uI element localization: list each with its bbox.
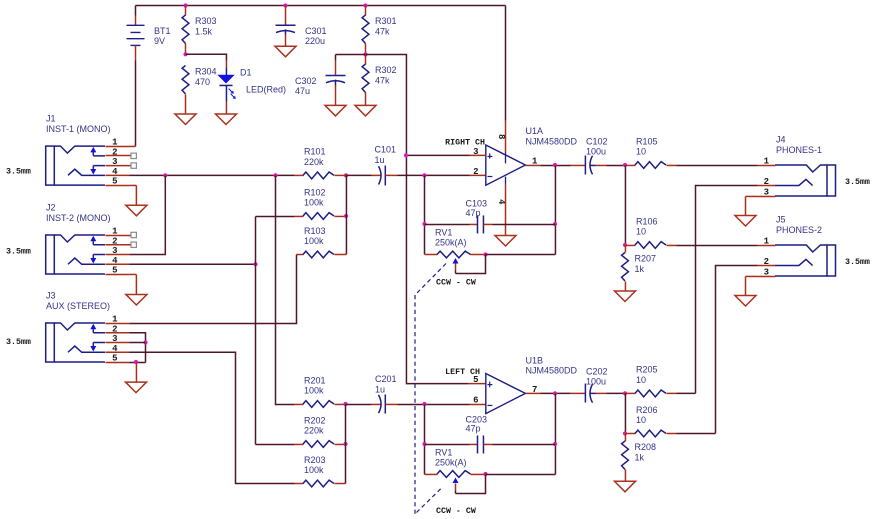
- svg-text:4: 4: [112, 256, 118, 266]
- diode D1 LED(Red): [219, 67, 287, 101]
- wire U1A pin 4 to ground: [505, 177, 507, 185]
- potentiometer RV1 250k(A) left channel: [425, 448, 471, 494]
- svg-text:3: 3: [112, 334, 117, 344]
- node pin2/feedback: [422, 173, 426, 177]
- wire C301 bottom lead: [285, 35, 287, 47]
- wire R101 right lead: [334, 174, 346, 176]
- capacitor C302 47u: [295, 76, 346, 97]
- svg-text:C202: C202: [586, 366, 608, 376]
- svg-text:6: 6: [473, 396, 478, 406]
- wire RV1b to feedback: [486, 473, 556, 475]
- svg-text:R102: R102: [304, 187, 326, 197]
- wire RV1 left-channel right lead: [471, 473, 486, 475]
- wire R202 right lead: [334, 443, 345, 445]
- node C203 left: [422, 442, 426, 446]
- ground below R208: [615, 481, 636, 492]
- wire R101-R103 right junction vertical: [345, 175, 347, 254]
- svg-text:CCW - CW: CCW - CW: [436, 278, 476, 287]
- connector J2 INST-2 (MONO) 3.5mm jack: [6, 203, 136, 276]
- wire R102 left lead: [256, 215, 295, 217]
- wire R207 top lead: [624, 245, 626, 252]
- potentiometer RV1 250k(A) right channel: [425, 228, 471, 274]
- wire R106 to J5 pin 1: [666, 244, 676, 246]
- svg-text:1u: 1u: [375, 384, 385, 394]
- svg-text:C301: C301: [305, 26, 327, 36]
- op-amp U1B NJM4580DD: [486, 355, 578, 413]
- wire R205/R206 junction vertical: [624, 393, 626, 433]
- svg-text:R302: R302: [375, 65, 397, 75]
- wire node to D1: [186, 54, 227, 60]
- svg-text:47k: 47k: [375, 75, 390, 85]
- node R202 junction: [343, 442, 347, 446]
- wire R302 bottom lead: [365, 93, 367, 106]
- resistor R208 1k: [622, 441, 656, 470]
- svg-text:PHONES-2: PHONES-2: [776, 225, 822, 235]
- node feedback/C103: [553, 222, 557, 226]
- node J2.4/branch A: [253, 262, 257, 266]
- wire J5 pin 2 to R206: [716, 266, 758, 434]
- wire C101 to U1A pin 2: [385, 174, 397, 176]
- svg-text:3: 3: [112, 246, 117, 256]
- node bus/R301: [363, 3, 367, 7]
- wire C202 to R205: [596, 392, 607, 394]
- svg-text:U1A: U1A: [526, 126, 544, 136]
- node feedback/C203: [553, 442, 557, 446]
- svg-text:3.5mm: 3.5mm: [6, 168, 31, 177]
- wire R106 left lead: [625, 244, 635, 246]
- ground below J3: [126, 382, 147, 393]
- svg-text:J4: J4: [776, 135, 786, 145]
- wire C201 to U1B pin 6: [385, 403, 397, 405]
- svg-text:2: 2: [112, 236, 117, 246]
- wire R105/R106 junction vertical: [624, 165, 626, 245]
- wire R303 bottom lead: [185, 44, 187, 55]
- resistor R103 100k: [303, 226, 334, 258]
- svg-text:100k: 100k: [304, 386, 324, 396]
- wire U1A pin 8 V+ lead: [505, 6, 507, 121]
- svg-text:U1B: U1B: [526, 355, 544, 365]
- ground below J2: [126, 295, 147, 306]
- wire R205 to J4 pin 2 net: [666, 392, 676, 394]
- svg-text:5: 5: [112, 354, 117, 364]
- ground U1A pin 4: [495, 236, 516, 247]
- wire J3 pin 4 to R203: [129, 352, 294, 483]
- node R303/R304/D1: [183, 52, 187, 56]
- resistor R102 100k: [303, 187, 334, 219]
- wire R207 bottom lead: [624, 281, 626, 291]
- ground below R207: [615, 291, 636, 302]
- wire U1A pin 2 feedback vertical: [424, 175, 426, 254]
- ground below J5: [735, 296, 756, 307]
- wire R303 top lead: [185, 6, 187, 16]
- svg-text:3: 3: [764, 188, 769, 198]
- svg-text:220k: 220k: [304, 426, 324, 436]
- svg-text:C101: C101: [375, 145, 397, 155]
- svg-text:470: 470: [195, 77, 210, 87]
- capacitor C301 220u: [276, 25, 327, 46]
- resistor R205 10: [635, 365, 666, 397]
- resistor R202 220k: [303, 415, 334, 447]
- wire branch A to R202: [256, 443, 295, 445]
- svg-text:R202: R202: [304, 415, 326, 425]
- node R206/R208: [623, 431, 627, 435]
- svg-text:5: 5: [112, 266, 117, 276]
- wire R208 bottom lead: [624, 470, 626, 482]
- svg-text:R304: R304: [195, 67, 217, 77]
- node R201/C201: [343, 402, 347, 406]
- svg-text:100k: 100k: [304, 198, 324, 208]
- svg-text:C201: C201: [375, 374, 397, 384]
- svg-text:J1: J1: [46, 114, 56, 124]
- svg-text:1u: 1u: [375, 155, 385, 165]
- node R102/R101 junction: [344, 214, 348, 218]
- svg-text:3.5mm: 3.5mm: [6, 248, 31, 257]
- wire J2 pin 4 to R102/R202 branch: [129, 263, 255, 265]
- node U1B out/feedback: [553, 391, 557, 395]
- svg-text:100u: 100u: [586, 377, 606, 387]
- wire R208 top lead: [624, 434, 626, 442]
- svg-text:R201: R201: [304, 375, 326, 385]
- svg-text:LED(Red): LED(Red): [246, 85, 286, 95]
- svg-text:R203: R203: [304, 455, 326, 465]
- svg-text:R207: R207: [635, 254, 657, 264]
- svg-text:RV1: RV1: [435, 448, 452, 458]
- svg-text:1: 1: [112, 315, 118, 325]
- svg-text:2: 2: [473, 167, 478, 177]
- capacitor C102 100u: [570, 136, 607, 174]
- svg-text:R301: R301: [375, 16, 397, 26]
- wire feedback vertical from output: [554, 165, 556, 254]
- resistor R303 1.5k: [182, 15, 216, 44]
- node RV1 wiper tie: [483, 252, 487, 256]
- svg-text:R303: R303: [195, 16, 217, 26]
- svg-text:1: 1: [112, 138, 118, 148]
- svg-text:D1: D1: [240, 68, 252, 78]
- wire R105 to J4 pin 1: [666, 164, 676, 166]
- svg-text:PHONES-1: PHONES-1: [776, 145, 822, 155]
- ganged potentiometer link (dashed): [415, 264, 446, 296]
- wire R301 top lead: [365, 6, 367, 16]
- wire branch A vertical (J2 tip net): [255, 216, 257, 444]
- wire R105 left lead: [625, 164, 635, 166]
- capacitor C201 1u: [346, 374, 397, 414]
- node C202/R205/R206: [623, 391, 627, 395]
- svg-text:8: 8: [496, 134, 506, 139]
- svg-text:CCW - CW: CCW - CW: [436, 507, 476, 516]
- resistor R206 10: [635, 405, 666, 437]
- svg-text:1: 1: [764, 157, 770, 167]
- svg-text:R103: R103: [304, 226, 326, 236]
- wire J2 pin 3 to J1 pin 4 net: [129, 175, 165, 254]
- wire U1B feedback vertical: [554, 393, 556, 474]
- node J1.4/left branch: [273, 173, 277, 177]
- wire U1B output: [525, 392, 540, 394]
- svg-text:4: 4: [112, 344, 118, 354]
- svg-text:BT1: BT1: [154, 26, 171, 36]
- wire RV1 right lead: [471, 254, 486, 256]
- wire R206 left lead: [625, 433, 635, 435]
- wire D1 cathode lead: [225, 101, 227, 114]
- capacitor C203 47p: [425, 414, 556, 453]
- wire J3 pin 5 to ground: [129, 361, 145, 363]
- wire C102 to R105: [596, 164, 607, 166]
- svg-text:100u: 100u: [586, 147, 606, 157]
- node pin6/feedback: [422, 402, 426, 406]
- wire R302 top lead: [365, 55, 367, 65]
- svg-text:100k: 100k: [304, 236, 324, 246]
- wire battery positive lead: [135, 6, 137, 16]
- svg-text:1.5k: 1.5k: [195, 26, 213, 36]
- node R301/R302 bias node VB: [363, 52, 367, 56]
- svg-text:10: 10: [636, 375, 646, 385]
- node J3.2/J3.3: [143, 340, 147, 344]
- svg-text:4: 4: [112, 167, 118, 177]
- capacitor C101 1u: [346, 145, 396, 186]
- wire J3 pin 3 lead: [129, 342, 145, 344]
- capacitor C103 47p: [425, 199, 556, 234]
- ground below D1: [216, 114, 237, 125]
- wire top power bus V+: [136, 5, 506, 7]
- svg-text:INST-1 (MONO): INST-1 (MONO): [46, 124, 111, 134]
- svg-text:1: 1: [764, 237, 770, 247]
- wire J1 pin 4 tip net to R101 and C101: [129, 174, 294, 176]
- connector J4 PHONES-1 3.5mm jack: [757, 135, 869, 198]
- wire C301 top lead: [285, 6, 287, 26]
- svg-text:2: 2: [764, 257, 769, 267]
- wire battery negative to J1 pin 1: [135, 45, 137, 60]
- svg-text:LEFT CH: LEFT CH: [445, 368, 480, 377]
- svg-text:R106: R106: [636, 216, 658, 226]
- wire C302 top lead: [335, 55, 337, 61]
- resistor R302 47k: [362, 64, 396, 93]
- connector J1 INST-1 (MONO) 3.5mm jack: [6, 114, 136, 187]
- wire J4 pin 2 to R205 output: [696, 186, 758, 394]
- resistor R304 470: [182, 66, 216, 95]
- wire RV1 to feedback: [486, 254, 556, 256]
- wire J5 pin 3 to ground: [746, 275, 758, 277]
- battery BT1 9V: [127, 25, 171, 46]
- node C102/R105/R106: [623, 163, 627, 167]
- node bus/C301: [283, 3, 287, 7]
- svg-text:47p: 47p: [466, 208, 481, 218]
- svg-text:220k: 220k: [304, 157, 324, 167]
- svg-text:3.5mm: 3.5mm: [6, 338, 31, 347]
- svg-text:1k: 1k: [635, 452, 645, 462]
- svg-text:250k(A): 250k(A): [435, 238, 467, 248]
- svg-text:J3: J3: [46, 291, 56, 301]
- svg-text:2: 2: [112, 324, 117, 334]
- op-amp U1A NJM4580DD: [486, 126, 578, 185]
- wire RV1b wiper to right end: [456, 474, 486, 493]
- svg-text:47k: 47k: [375, 26, 390, 36]
- svg-text:NJM4580DD: NJM4580DD: [526, 366, 578, 376]
- svg-text:47u: 47u: [295, 86, 310, 96]
- svg-text:C102: C102: [586, 136, 608, 146]
- svg-text:4: 4: [496, 199, 506, 205]
- wire RV1 wiper to right end: [456, 255, 486, 274]
- ground below C302: [325, 105, 346, 116]
- wire J1 pin 5 to ground: [129, 184, 136, 186]
- wire VB to U1A pin 3: [406, 154, 469, 156]
- ground below R304: [175, 114, 196, 125]
- svg-text:INST-2 (MONO): INST-2 (MONO): [46, 213, 111, 223]
- wire J3 pin 2 to pin 3/pin 5: [129, 333, 145, 363]
- svg-text:9V: 9V: [154, 36, 165, 46]
- svg-text:J2: J2: [46, 203, 56, 213]
- node J1.4/J2.3: [163, 173, 167, 177]
- svg-text:C302: C302: [295, 76, 317, 86]
- svg-text:10: 10: [636, 415, 646, 425]
- node U1A out/feedback: [553, 163, 557, 167]
- wire R102 right lead: [334, 215, 346, 217]
- svg-text:47p: 47p: [466, 424, 481, 434]
- node bus/R303: [183, 3, 187, 7]
- resistor R106 10: [635, 216, 666, 248]
- wire R201-R203 right junction vertical: [345, 404, 347, 483]
- ground below J1: [126, 205, 147, 216]
- node R101/C101: [344, 173, 348, 177]
- wire R205 left lead: [625, 392, 635, 394]
- svg-text:R208: R208: [635, 442, 657, 452]
- svg-text:2: 2: [112, 147, 117, 157]
- wire R206 to J5 pin 2 net: [666, 433, 676, 435]
- wire R201 right lead: [334, 403, 345, 405]
- wire R304 bottom lead: [185, 94, 187, 114]
- resistor R207 1k: [622, 253, 656, 282]
- resistor R201 100k: [303, 375, 334, 407]
- svg-text:3.5mm: 3.5mm: [845, 178, 870, 187]
- resistor R301 47k: [362, 15, 396, 44]
- resistor R101 220k: [303, 147, 334, 179]
- resistor R203 100k: [303, 455, 334, 487]
- wire U1B pin 6 feedback vertical: [424, 404, 426, 474]
- wire R103 right lead: [334, 254, 346, 256]
- wire J3 pin 1 to R103: [129, 255, 296, 324]
- svg-text:1: 1: [112, 227, 118, 237]
- svg-text:3: 3: [112, 157, 117, 167]
- svg-text:10: 10: [636, 147, 646, 157]
- wire C302 bottom lead: [335, 85, 337, 105]
- resistor R105 10: [635, 136, 666, 168]
- wire R203 right lead: [334, 483, 345, 485]
- svg-text:RV1: RV1: [435, 228, 452, 238]
- svg-text:R206: R206: [636, 405, 658, 415]
- svg-text:2: 2: [764, 177, 769, 187]
- svg-text:250k(A): 250k(A): [435, 458, 467, 468]
- node C103 left: [422, 222, 426, 226]
- wire J4 pin 3 to ground: [746, 195, 758, 197]
- svg-text:3: 3: [764, 268, 769, 278]
- connector J5 PHONES-2 3.5mm jack: [757, 215, 869, 278]
- wire J2 pin 5 to ground: [129, 273, 136, 275]
- connector J3 AUX (STEREO) 3.5mm jack: [6, 291, 129, 364]
- wire branch B vertical (J1 tip to left channel): [276, 175, 295, 404]
- wire bias node VB to C302 and U1B pin 5: [336, 55, 469, 384]
- svg-text:5: 5: [112, 177, 117, 187]
- ground below R302: [355, 105, 376, 116]
- node RV1b wiper tie: [483, 472, 487, 476]
- svg-text:10: 10: [636, 227, 646, 237]
- ground below J4: [735, 216, 756, 227]
- svg-text:3.5mm: 3.5mm: [845, 258, 870, 267]
- svg-text:R101: R101: [304, 147, 326, 157]
- wire R103 left lead: [297, 254, 304, 256]
- node R106/R207: [623, 243, 627, 247]
- svg-text:100k: 100k: [304, 465, 324, 475]
- node VB/U1A.3: [404, 153, 408, 157]
- svg-text:R105: R105: [636, 136, 658, 146]
- svg-text:NJM4580DD: NJM4580DD: [526, 136, 578, 146]
- capacitor C202 100u: [570, 366, 607, 402]
- node J3.5/ground: [134, 360, 138, 364]
- ground below C301: [275, 46, 296, 57]
- wire R301 bottom lead: [365, 44, 367, 55]
- svg-text:220u: 220u: [305, 36, 325, 46]
- svg-text:1k: 1k: [635, 264, 645, 274]
- wire U1A output: [525, 164, 540, 166]
- svg-text:R205: R205: [636, 365, 658, 375]
- svg-text:J5: J5: [776, 215, 786, 225]
- svg-text:RIGHT CH: RIGHT CH: [445, 139, 485, 148]
- svg-text:AUX (STEREO): AUX (STEREO): [46, 301, 110, 311]
